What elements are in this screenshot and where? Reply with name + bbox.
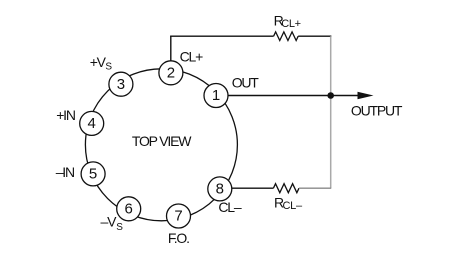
svg-text:7: 7 xyxy=(174,208,182,225)
pin 7 xyxy=(167,204,191,228)
svg-text:8: 8 xyxy=(216,181,224,198)
pin 6 xyxy=(117,197,141,221)
svg-text:3: 3 xyxy=(117,76,125,93)
wire resistor RCL- to feedback vertical xyxy=(299,187,331,189)
wire from pin 2 up to top rail xyxy=(170,36,172,61)
svg-text:4: 4 xyxy=(88,115,96,132)
svg-text:CL–: CL– xyxy=(218,199,241,215)
output arrow xyxy=(331,95,359,97)
svg-text:6: 6 xyxy=(125,200,133,217)
svg-text:2: 2 xyxy=(167,64,175,81)
IC can outline (top view) xyxy=(85,69,237,221)
pin 4 xyxy=(80,111,104,135)
junction dot xyxy=(327,92,334,99)
svg-text:+IN: +IN xyxy=(56,107,75,123)
svg-text:CL–: CL– xyxy=(283,200,303,212)
pin 2 xyxy=(159,61,183,85)
feedback vertical wire xyxy=(330,36,332,188)
pin 1 xyxy=(204,84,228,108)
pin 5 xyxy=(81,162,105,186)
svg-text:S: S xyxy=(105,62,112,73)
svg-text:CL+: CL+ xyxy=(281,18,301,30)
svg-text:+V: +V xyxy=(90,54,107,70)
svg-text:S: S xyxy=(116,222,123,233)
pin 3 xyxy=(109,72,133,96)
svg-text:TOP VIEW: TOP VIEW xyxy=(132,133,192,149)
top rail wire (right of RCL+) xyxy=(298,35,331,37)
wire pin 8 to resistor RCL- xyxy=(232,187,274,189)
svg-text:–V: –V xyxy=(101,214,118,230)
svg-text:1: 1 xyxy=(212,87,220,104)
wire pin 1 to junction (OUT net) xyxy=(228,95,331,97)
svg-text:OUTPUT: OUTPUT xyxy=(351,102,403,118)
pin 8 xyxy=(208,177,232,201)
resistor RCL+ zigzag xyxy=(274,32,299,41)
svg-text:CL+: CL+ xyxy=(180,48,203,64)
svg-text:–IN: –IN xyxy=(56,164,74,180)
svg-text:OUT: OUT xyxy=(232,75,260,91)
svg-text:5: 5 xyxy=(89,166,97,183)
svg-text:F.O.: F.O. xyxy=(168,230,189,246)
top rail wire (left of RCL+) xyxy=(170,35,274,37)
resistor RCL- zigzag xyxy=(273,184,299,193)
